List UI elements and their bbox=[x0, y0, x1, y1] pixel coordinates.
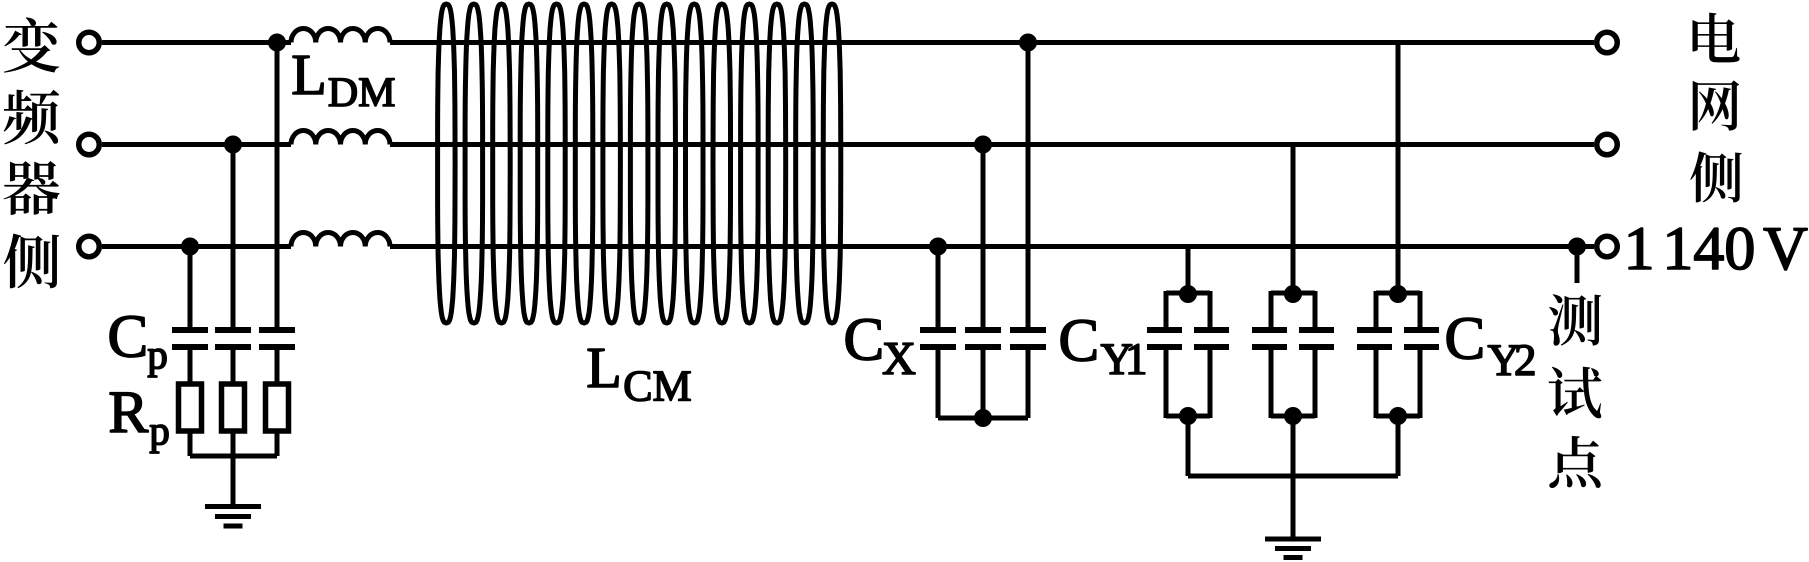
wire Rp1 to bus bbox=[188, 431, 193, 456]
terminal grid-side phase A bbox=[1597, 32, 1618, 53]
wire CY column 2 drop bbox=[1291, 145, 1296, 296]
label grid side (dian wang ce) bbox=[1690, 13, 1741, 203]
wire CX1 to star bus bbox=[936, 348, 941, 418]
terminal inverter-side phase C bbox=[79, 236, 100, 257]
label LDM bbox=[293, 56, 394, 106]
node phase-A to Cp column 3 bbox=[268, 34, 286, 52]
resistor Rp 2 bbox=[222, 384, 245, 431]
wire phase-B right segment bbox=[390, 142, 1594, 147]
wire CY bus to ground stem bbox=[1291, 476, 1296, 539]
capacitor CX 3 bbox=[1010, 327, 1046, 333]
wire Cp3 to Rp3 bbox=[275, 348, 280, 384]
wire CY3 to ground bus bbox=[1396, 416, 1401, 476]
label Cp bbox=[110, 316, 166, 377]
wire Cp1 to Rp1 bbox=[188, 348, 193, 384]
node phase-C to CX column 1 bbox=[929, 238, 947, 256]
wire Cp column 2 drop bbox=[231, 145, 236, 330]
capacitor CX 1 bbox=[920, 327, 956, 333]
wire CY2 to ground bus bbox=[1291, 416, 1296, 476]
node phase-B to Cp column 2 bbox=[224, 136, 242, 154]
label CX bbox=[846, 319, 915, 374]
capacitor CX 2 bbox=[965, 327, 1001, 333]
label inverter side (bian pin qi ce) bbox=[3, 17, 59, 288]
wire Rp3 to bus bbox=[275, 431, 280, 456]
resistor Rp 3 bbox=[266, 384, 289, 431]
label CY1 bbox=[1061, 320, 1145, 374]
wire CY ground bus bbox=[1188, 474, 1398, 479]
common-mode choke LCM bbox=[438, 4, 841, 323]
node CY1 bottom bbox=[1179, 407, 1197, 425]
node CX star point bbox=[974, 409, 992, 427]
capacitor Cp 1 bbox=[172, 327, 208, 333]
wire CY1 to ground bus bbox=[1186, 416, 1191, 476]
terminal grid-side phase B bbox=[1597, 134, 1618, 155]
resistor Rp 1 bbox=[179, 384, 202, 431]
inductor LDM phase C bbox=[291, 233, 390, 247]
capacitor Cp 2 bbox=[215, 327, 251, 333]
node phase-C to Cp column 1 bbox=[181, 238, 199, 256]
wire CY column 3 drop bbox=[1396, 43, 1401, 296]
wire Cp2 to Rp2 bbox=[231, 348, 236, 384]
capacitor Cp 3 bbox=[259, 327, 295, 333]
wire test point stub bbox=[1575, 247, 1580, 284]
wire CX2 to star bus bbox=[981, 348, 986, 418]
wire phase-A left segment bbox=[102, 40, 291, 45]
label 1 140 V bbox=[1629, 228, 1807, 270]
label CY2 bbox=[1447, 318, 1534, 375]
wire phase-A right segment bbox=[390, 40, 1594, 45]
capacitor CY 3 (two parallel) bbox=[1357, 291, 1439, 418]
wire CX3 to star bus bbox=[1026, 348, 1031, 418]
wire phase-B left segment bbox=[102, 142, 291, 147]
terminal grid-side phase C bbox=[1597, 236, 1618, 257]
wire CX column 3 drop bbox=[1026, 43, 1031, 330]
wire Cp column 1 drop bbox=[188, 247, 193, 330]
ground left bbox=[205, 507, 261, 527]
label Rp bbox=[110, 393, 168, 453]
label LCM bbox=[588, 349, 690, 401]
terminal inverter-side phase A bbox=[79, 32, 100, 53]
node CY3 bottom bbox=[1389, 407, 1407, 425]
node CY1 top bbox=[1179, 285, 1197, 303]
node CY3 top bbox=[1389, 285, 1407, 303]
wire Rp2 to bus bbox=[231, 431, 236, 456]
wire phase-C right segment bbox=[390, 244, 1594, 249]
wire Cp column 3 drop bbox=[275, 43, 280, 330]
wire phase-C left segment bbox=[102, 244, 291, 249]
wire CX star bus bbox=[938, 416, 1028, 421]
node CY2 bottom bbox=[1284, 407, 1302, 425]
wire CX column 1 drop bbox=[936, 247, 941, 330]
inductor LDM phase A bbox=[291, 29, 390, 43]
node phase-A to CX column 3 bbox=[1019, 34, 1037, 52]
wire Cp/Rp ground bus bbox=[190, 454, 277, 459]
node test point bbox=[1568, 238, 1586, 256]
capacitor CY 2 (two parallel) bbox=[1252, 291, 1334, 418]
wire Rp bus to ground stem bbox=[231, 456, 236, 506]
label test point (ce shi dian) bbox=[1549, 294, 1602, 488]
capacitor CY 1 (two parallel) bbox=[1147, 291, 1229, 418]
node phase-B to CX column 2 bbox=[974, 136, 992, 154]
inductor LDM phase B bbox=[291, 131, 390, 145]
node CY2 top bbox=[1284, 285, 1302, 303]
terminal inverter-side phase B bbox=[79, 134, 100, 155]
wire CX column 2 drop bbox=[981, 145, 986, 330]
wire CY column 1 drop bbox=[1186, 247, 1191, 296]
ground right bbox=[1265, 539, 1321, 558]
